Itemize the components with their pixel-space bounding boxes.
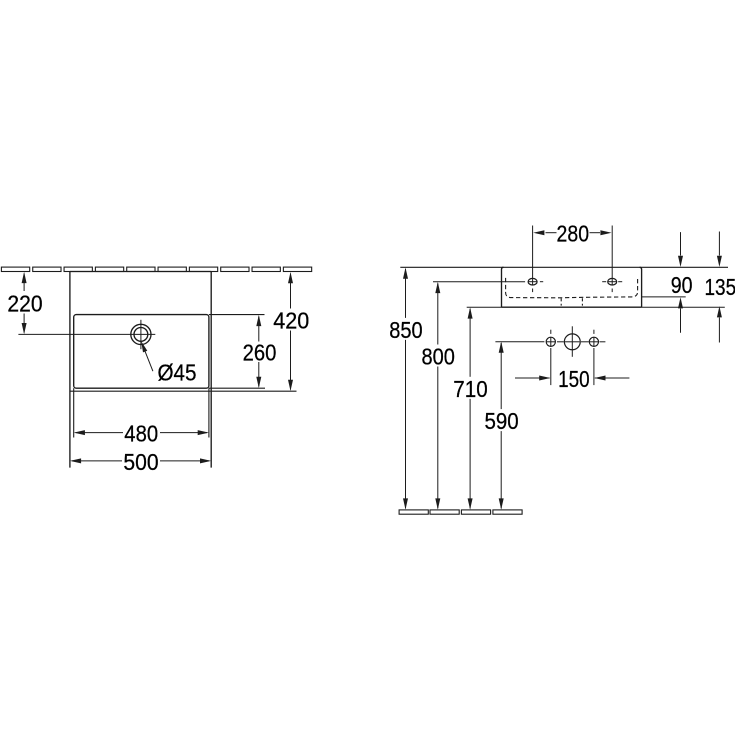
svg-text:135: 135: [705, 274, 735, 300]
svg-text:150: 150: [558, 366, 590, 392]
svg-text:90: 90: [671, 272, 693, 298]
svg-text:710: 710: [453, 376, 487, 402]
svg-text:800: 800: [422, 344, 455, 370]
svg-text:480: 480: [124, 421, 158, 447]
svg-text:220: 220: [7, 290, 42, 316]
svg-text:850: 850: [389, 317, 422, 343]
svg-text:500: 500: [123, 449, 158, 475]
svg-text:260: 260: [243, 340, 277, 366]
svg-text:280: 280: [557, 221, 590, 247]
svg-text:Ø45: Ø45: [158, 359, 197, 385]
svg-text:420: 420: [273, 308, 309, 334]
svg-text:590: 590: [485, 408, 519, 434]
